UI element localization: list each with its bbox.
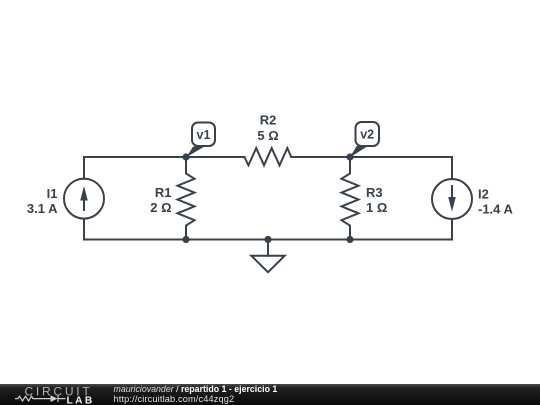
label I2 value [478,187,514,217]
wire top-right from R2 to I2 [291,157,452,179]
svg-text:1 Ω: 1 Ω [366,200,387,215]
resistor R2 [245,148,292,165]
label R1 value [150,185,171,215]
svg-text:R1: R1 [155,185,172,200]
svg-text:-1.4 A: -1.4 A [478,202,514,217]
wire bottom rail [84,219,452,240]
current source I2 [432,179,472,219]
svg-text:v1: v1 [197,128,211,142]
ground [251,256,284,273]
svg-text:2 Ω: 2 Ω [150,200,171,215]
junction dot v2 node [346,153,353,160]
svg-text:http://circuitlab.com/c44zqg2: http://circuitlab.com/c44zqg2 [114,394,235,404]
wire ground stem [267,240,269,256]
current source I1 [64,179,104,219]
svg-text:mauriciovander / repartido 1 -: mauriciovander / repartido 1 - ejercicio… [114,384,278,394]
svg-text:3.1 A: 3.1 A [27,201,58,216]
wire top-left from I1 to R2 [84,157,245,179]
label R3 value [366,185,387,215]
resistor R3 [342,157,359,240]
svg-text:R3: R3 [366,185,383,200]
label R2 value [257,113,278,144]
svg-text:v2: v2 [360,128,374,142]
svg-text:I1: I1 [47,186,58,201]
junction dot R3 bottom [346,236,353,243]
label I1 value [27,186,58,216]
junction dot v1 node [182,153,189,160]
junction dot ground node [264,236,271,243]
resistor R1 [178,157,195,240]
svg-text:LAB: LAB [67,395,95,405]
svg-text:5 Ω: 5 Ω [257,128,278,143]
node v1 flag [186,123,215,158]
node v2 flag [350,122,379,158]
svg-text:R2: R2 [260,113,277,128]
logo schematic squiggle [15,395,66,402]
junction dot R1 bottom [182,236,189,243]
footer bar [0,384,540,405]
svg-text:I2: I2 [478,187,489,202]
